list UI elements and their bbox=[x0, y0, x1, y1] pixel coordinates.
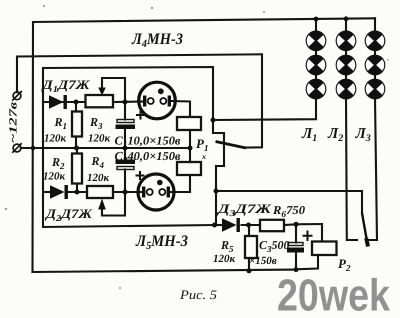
svg-text:120к: 120к bbox=[87, 172, 110, 184]
svg-text:R5: R5 bbox=[220, 238, 234, 254]
svg-text:120к: 120к bbox=[43, 171, 66, 183]
svg-text:R4: R4 bbox=[91, 154, 105, 170]
svg-text:Д1Д7Ж: Д1Д7Ж bbox=[41, 77, 90, 94]
svg-text:х: х bbox=[201, 152, 206, 161]
svg-text:R3: R3 bbox=[89, 115, 103, 131]
svg-text:Л5МН-3: Л5МН-3 bbox=[135, 233, 188, 252]
svg-text:~127в: ~127в bbox=[8, 102, 20, 143]
svg-text:120к: 120к bbox=[213, 253, 236, 265]
svg-text:Д3Д7Ж: Д3Д7Ж bbox=[217, 201, 273, 218]
svg-text:Л1: Л1 bbox=[301, 126, 317, 144]
svg-text:20wek: 20wek bbox=[277, 270, 391, 318]
svg-text:Рис. 5: Рис. 5 bbox=[179, 287, 218, 302]
svg-text:R2: R2 bbox=[51, 155, 65, 171]
svg-text:Р1: Р1 bbox=[196, 136, 208, 153]
svg-text:С3500: С3500 bbox=[259, 238, 290, 254]
svg-text:120к: 120к bbox=[44, 133, 67, 145]
svg-text:Л2: Л2 bbox=[327, 126, 343, 144]
svg-text:R6750: R6750 bbox=[272, 203, 305, 219]
svg-text:Л4МН-3: Л4МН-3 bbox=[131, 31, 183, 50]
svg-text:Л3: Л3 bbox=[355, 126, 371, 144]
svg-text:R1: R1 bbox=[54, 115, 68, 131]
svg-text:×150в: ×150в bbox=[249, 255, 277, 267]
svg-text:120к: 120к bbox=[88, 133, 111, 145]
svg-text:Д2Д7Ж: Д2Д7Ж bbox=[45, 206, 93, 223]
